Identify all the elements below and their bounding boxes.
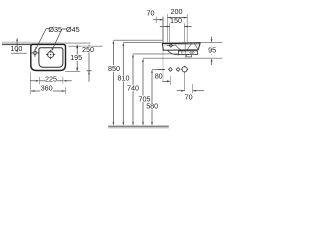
basin outer outline (plan view) (31, 44, 66, 70)
hidden drain lines (side view) (174, 43, 198, 57)
dimension 80 (wall to first connection) (155, 71, 171, 85)
dimension 360 (below basin) (31, 90, 65, 92)
height dimension 580 (146, 69, 165, 125)
dimension 70 (drain offset, bottom) (177, 73, 204, 102)
dimension 95 (right) (200, 37, 222, 65)
connection symbols row (158, 68, 180, 72)
dimension 100 (left) (11, 41, 27, 53)
svg-text:150: 150 (170, 16, 182, 25)
extension line below basin left (30, 73, 32, 95)
svg-text:360: 360 (41, 83, 53, 92)
height dimension 850 (108, 40, 162, 125)
height dimension 810 (118, 42, 163, 125)
svg-text:250: 250 (82, 45, 94, 54)
extension ticks below basin right (62, 77, 64, 84)
dimension 200 (top) (167, 7, 187, 43)
svg-text:95: 95 (208, 45, 216, 54)
drain connection symbol (181, 66, 188, 73)
height dimension 705 + lower extension of 95 (138, 58, 222, 125)
under-bowl curve and trap (side view) (168, 50, 198, 57)
wall vertical (side view) (162, 17, 164, 51)
svg-text:810: 810 (118, 74, 130, 83)
dimension 150 (top) (160, 16, 192, 43)
floor line (108, 126, 169, 129)
svg-text:195: 195 (70, 53, 82, 62)
basin inner bowl (plan view) (39, 48, 63, 68)
svg-text:225: 225 (45, 74, 57, 83)
wall line (plan view) (2, 44, 31, 45)
dimension 70 (top, from wall) (147, 8, 164, 23)
basin front edge extension line (65, 70, 80, 72)
svg-text:60: 60 (189, 50, 195, 55)
basin top edge extension line (69, 45, 103, 47)
svg-text:740: 740 (127, 83, 139, 92)
svg-text:80: 80 (155, 71, 163, 80)
basin body (side view) (162, 43, 200, 50)
drain Ø45 (plan view) (46, 50, 55, 59)
svg-text:70: 70 (185, 93, 193, 102)
dimension 225 (below basin) (30, 80, 72, 82)
dimension 250 (vertical, plan far right) (86, 45, 91, 82)
height dimension 740 (127, 54, 179, 126)
wall hatch band (plan view) (2, 42, 91, 44)
label Ø35 with leader (35, 25, 62, 50)
label Ø45 with leader (52, 25, 80, 51)
svg-text:850: 850 (108, 64, 120, 73)
faucet hole cross (plan view) (31, 49, 39, 57)
svg-text:70: 70 (147, 8, 155, 17)
trap outlet label 60 (189, 50, 195, 55)
wall top thin line (plan view) (2, 41, 31, 43)
fixing hole marker (side view) (167, 44, 175, 47)
svg-text:100: 100 (10, 44, 22, 53)
dimension 195 (vertical, plan right) (76, 45, 78, 71)
extension tick at bowl left (225 ref) (38, 77, 40, 84)
svg-text:200: 200 (171, 7, 183, 16)
svg-text:580: 580 (146, 102, 158, 111)
svg-text:Ø45: Ø45 (66, 25, 80, 34)
